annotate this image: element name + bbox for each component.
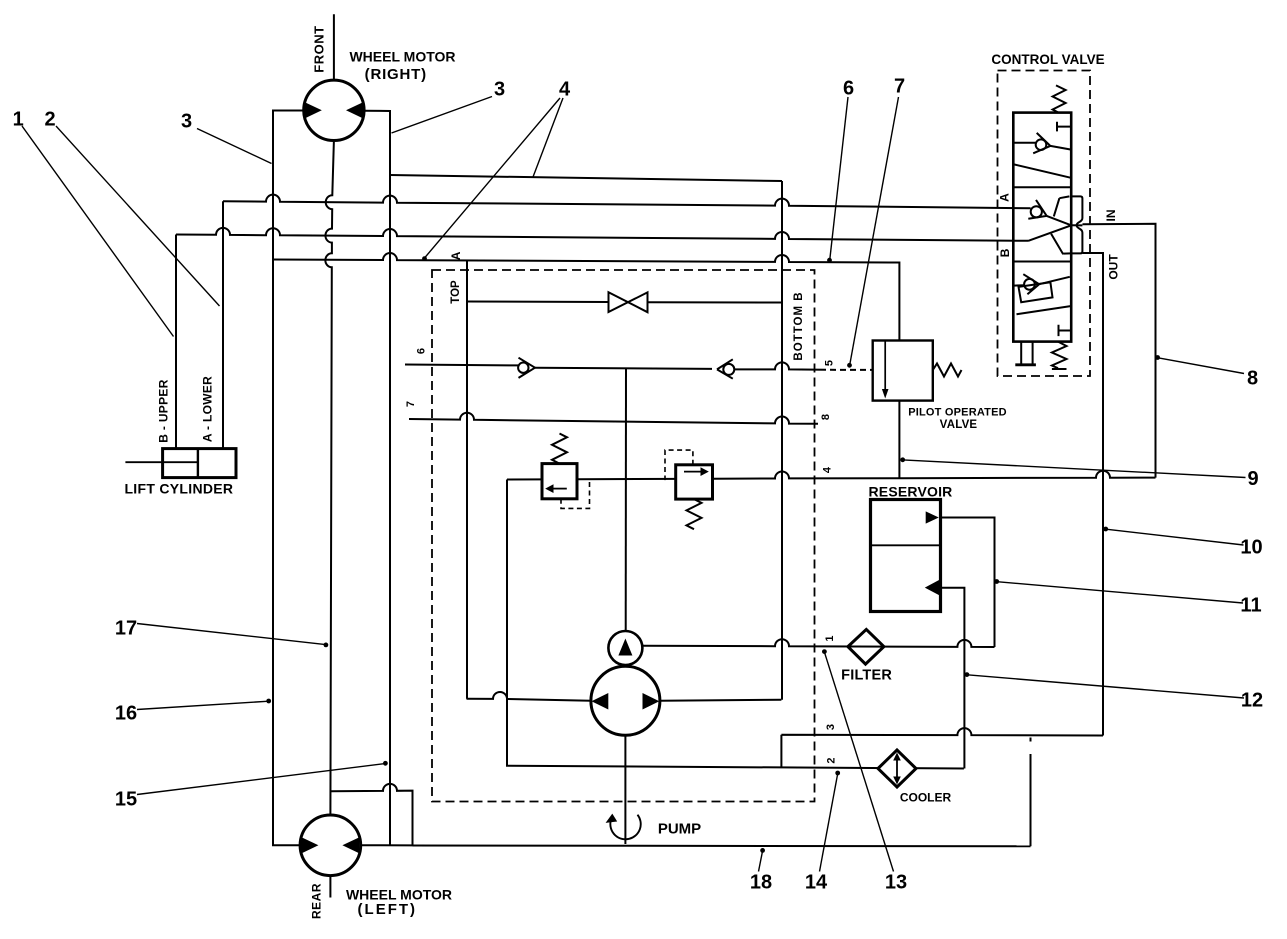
svg-text:IN: IN: [1104, 210, 1118, 222]
svg-text:3: 3: [825, 724, 837, 730]
svg-text:11: 11: [1240, 595, 1261, 617]
svg-text:12: 12: [1241, 690, 1263, 712]
svg-text:15: 15: [115, 789, 137, 811]
svg-text:8: 8: [820, 414, 832, 420]
svg-text:16: 16: [115, 703, 137, 725]
svg-text:4: 4: [559, 79, 571, 101]
svg-text:2: 2: [826, 757, 838, 763]
svg-text:7: 7: [405, 401, 417, 407]
svg-text:2: 2: [44, 109, 55, 131]
svg-text:REAR: REAR: [310, 883, 324, 919]
svg-text:1: 1: [824, 635, 836, 641]
svg-text:BOTTOM B: BOTTOM B: [793, 291, 805, 360]
svg-text:VALVE: VALVE: [940, 419, 978, 431]
svg-text:6: 6: [843, 78, 854, 100]
svg-text:7: 7: [894, 76, 905, 98]
svg-text:3: 3: [181, 111, 192, 133]
svg-text:13: 13: [885, 872, 907, 894]
svg-text:1: 1: [13, 109, 24, 131]
svg-text:9: 9: [1247, 468, 1258, 490]
svg-text:B: B: [998, 248, 1012, 257]
svg-text:A: A: [449, 251, 463, 260]
svg-text:14: 14: [805, 872, 828, 894]
svg-text:A: A: [997, 193, 1011, 202]
svg-text:17: 17: [115, 618, 137, 640]
svg-text:RESERVOIR: RESERVOIR: [868, 484, 952, 500]
svg-text:OUT: OUT: [1107, 254, 1121, 280]
svg-text:10: 10: [1240, 537, 1262, 559]
svg-text:LIFT CYLINDER: LIFT CYLINDER: [124, 481, 233, 497]
svg-text:TOP: TOP: [450, 280, 462, 304]
svg-text:COOLER: COOLER: [900, 791, 952, 805]
svg-text:18: 18: [750, 872, 772, 894]
svg-text:(LEFT): (LEFT): [358, 901, 417, 918]
svg-text:FILTER: FILTER: [841, 667, 892, 683]
svg-text:PILOT OPERATED: PILOT OPERATED: [908, 406, 1007, 418]
svg-text:(RIGHT): (RIGHT): [365, 66, 427, 83]
svg-text:WHEEL MOTOR: WHEEL MOTOR: [349, 48, 455, 64]
svg-text:B - UPPER: B - UPPER: [157, 379, 171, 442]
svg-text:CONTROL VALVE: CONTROL VALVE: [991, 52, 1104, 67]
svg-text:A - LOWER: A - LOWER: [201, 376, 215, 442]
svg-text:6: 6: [416, 348, 428, 354]
svg-text:FRONT: FRONT: [312, 25, 327, 72]
svg-text:8: 8: [1247, 368, 1258, 390]
svg-text:5: 5: [824, 360, 836, 366]
svg-text:PUMP: PUMP: [658, 821, 701, 838]
svg-text:4: 4: [822, 466, 834, 473]
svg-text:3: 3: [494, 79, 505, 101]
